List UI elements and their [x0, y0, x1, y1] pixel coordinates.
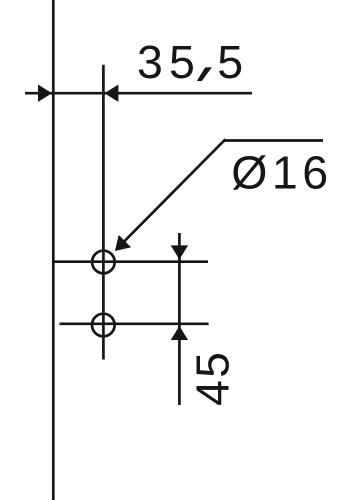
svg-text:35: 35 — [137, 36, 201, 88]
svg-text:45: 45 — [186, 350, 238, 406]
svg-text:5: 5 — [217, 36, 243, 88]
svg-text:Ø16: Ø16 — [231, 147, 332, 199]
